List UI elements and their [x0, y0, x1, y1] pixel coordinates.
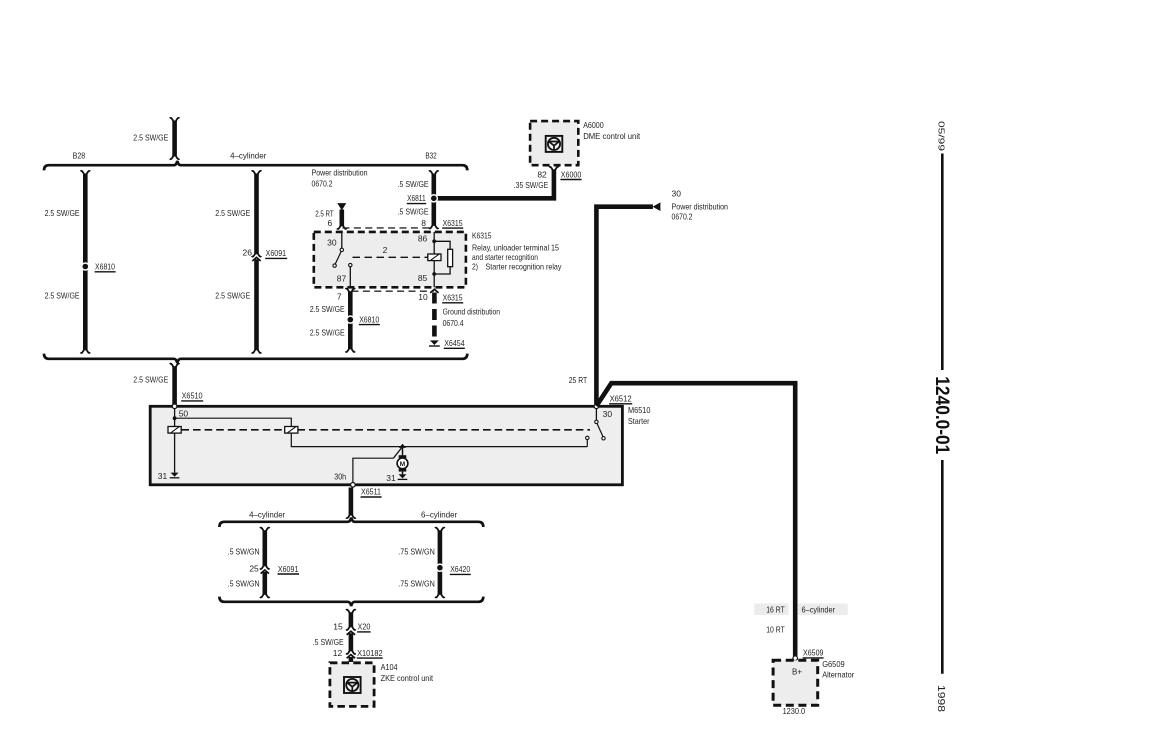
relay actuation dashed link, circuit 2 — [353, 256, 428, 258]
relay pin 30 wire + contact — [340, 232, 343, 252]
svg-text:Relay, unloader terminal 15: Relay, unloader terminal 15 — [472, 242, 559, 252]
svg-text:2.5 SW/GE: 2.5 SW/GE — [215, 208, 250, 218]
svg-text:1230.0: 1230.0 — [783, 706, 806, 716]
svg-text:X6511: X6511 — [361, 487, 381, 497]
connector X6315 pin 10 label — [442, 293, 463, 303]
connector X6000 pin 82 — [537, 169, 581, 179]
svg-text:25 RT: 25 RT — [569, 375, 588, 385]
control unit icon (DME) — [546, 136, 563, 152]
alternator entry circle — [793, 656, 798, 661]
svg-text:31: 31 — [386, 473, 396, 483]
svg-text:2: 2 — [383, 245, 388, 255]
wire 2.5 SW/GE to starter X6510 — [170, 364, 180, 405]
svg-text:X10182: X10182 — [357, 648, 383, 658]
svg-text:2.5 SW/GE: 2.5 SW/GE — [133, 132, 168, 142]
model year 1998 (rotated) — [935, 685, 946, 713]
relay contact 87 — [349, 263, 352, 287]
label 2.5 SW/GE (4-cyl branch lower) — [215, 291, 250, 301]
svg-text:82: 82 — [537, 170, 547, 180]
label X6811 — [407, 193, 426, 203]
svg-text:30: 30 — [672, 189, 682, 199]
svg-text:X6454: X6454 — [444, 338, 465, 348]
label 2.5 RT — [315, 209, 334, 219]
label A104 ZKE control unit — [381, 662, 434, 683]
terminal B+ label — [792, 666, 802, 676]
svg-text:2): 2) — [472, 262, 478, 272]
svg-text:X6810: X6810 — [95, 262, 115, 272]
label Ground distribution 0670.4 — [443, 307, 501, 328]
connector X6512 label — [609, 394, 632, 404]
highlight 16 RT — [754, 603, 788, 615]
page date 05/99 (rotated) — [937, 121, 947, 152]
pin 6 label — [327, 218, 332, 228]
svg-text:X6091: X6091 — [278, 564, 299, 574]
ground X6454 — [429, 338, 465, 348]
svg-text:X20: X20 — [358, 622, 371, 632]
connector X6091 pin 26 — [243, 247, 288, 261]
wire to X20 pin 15 — [346, 610, 356, 630]
highlight 6-cylinder (alternator wire) — [798, 603, 848, 615]
X6512 entry circle — [594, 404, 599, 409]
connector X6810 (dot on pin7 wire) — [346, 314, 380, 324]
wire coil1 to ground 31 — [174, 433, 176, 473]
label DME control unit — [583, 131, 641, 141]
svg-text:Power distribution: Power distribution — [312, 168, 368, 178]
label 2 (relay link) — [383, 245, 388, 255]
label 30 Power distribution 0670.2 (right) — [672, 189, 729, 222]
node label B28 — [73, 150, 86, 160]
svg-text:ZKE control unit: ZKE control unit — [381, 673, 434, 683]
pin 7 label — [337, 292, 342, 302]
svg-text:X6091: X6091 — [266, 248, 287, 258]
pin 30h label — [334, 472, 346, 482]
connector X20 pin 15 — [333, 622, 371, 635]
connector X6315 housing link pins 6-8 (thin dashed) — [343, 227, 434, 229]
svg-text:2.5 SW/GE: 2.5 SW/GE — [310, 328, 345, 338]
relay coil wire 86-85 — [433, 232, 435, 287]
connector X6315 pin 8 (relay K6315 top) — [421, 218, 463, 228]
svg-text:31: 31 — [158, 471, 168, 481]
pin 31 label (motor) — [386, 473, 396, 483]
svg-text:Starter recognition relay: Starter recognition relay — [486, 262, 563, 272]
wire .5 SW/GN upper (4-cyl) — [260, 528, 270, 569]
svg-text:and starter recognition: and starter recognition — [472, 252, 538, 262]
svg-text:30h: 30h — [334, 472, 346, 482]
svg-text:B+: B+ — [792, 666, 802, 676]
label 6-cylinder (bottom group) — [421, 509, 457, 519]
svg-text:X6315: X6315 — [443, 293, 463, 303]
starter pin50 internal wire + junction — [173, 409, 292, 427]
svg-text:X6420: X6420 — [450, 564, 470, 574]
svg-text:26: 26 — [243, 247, 253, 257]
svg-text:X6509: X6509 — [803, 648, 824, 658]
svg-text:.35 SW/GE: .35 SW/GE — [514, 180, 549, 190]
label .5 SW/GE (B32 upper) — [398, 179, 429, 189]
pin 30 label (relay) — [327, 238, 337, 248]
relay coil (slashed box) — [428, 254, 441, 261]
bus brace 4/6-cylinder (bottom) — [219, 597, 483, 606]
alternator G6509 box — [773, 660, 818, 705]
wire 30 from power distribution (right) — [596, 207, 653, 405]
starter M6510 box — [150, 406, 622, 485]
svg-text:6–cylinder: 6–cylinder — [421, 509, 457, 519]
label 2.5 SW/GE (X6510 wire) — [133, 375, 168, 385]
svg-text:7: 7 — [337, 292, 342, 302]
svg-text:.5 SW/GE: .5 SW/GE — [398, 207, 429, 217]
starter solenoid coil 2 — [285, 427, 298, 434]
X6511 exit circle — [351, 483, 356, 488]
wire 2.5 SW/GE from relay pin 87 / pin 7 — [346, 289, 356, 352]
svg-text:10 RT: 10 RT — [766, 624, 785, 634]
svg-text:Starter: Starter — [628, 416, 650, 426]
pin 85 label — [418, 273, 428, 283]
pin 10 label — [418, 292, 428, 302]
wire .5 SW/GN lower (4-cyl) — [260, 572, 270, 598]
svg-text:86: 86 — [418, 234, 428, 244]
label 2.5 SW/GE (pin7 lower) — [310, 328, 345, 338]
label 2.5 SW/GE (pin7 upper) — [310, 304, 345, 314]
svg-text:0670.2: 0670.2 — [312, 178, 333, 188]
svg-text:Ground distribution: Ground distribution — [443, 307, 501, 317]
starter solenoid coil 1 — [168, 427, 181, 434]
label Power distribution 0670.2 (top) — [312, 168, 368, 189]
svg-text:1998: 1998 — [935, 685, 946, 713]
pin 50 label — [179, 409, 189, 419]
starter main contact 30 — [586, 409, 606, 447]
svg-text:M: M — [400, 461, 405, 468]
wire coil2 down to contact rail — [291, 433, 587, 447]
bus brace 4-cylinder / 6-cylinder (top) — [219, 518, 483, 527]
wire .35 SW/GE from X6811 to DME X6000 — [434, 167, 559, 199]
svg-text:.75 SW/GN: .75 SW/GN — [398, 547, 435, 557]
wire starter 30h to X6511 connector — [346, 488, 356, 519]
label .5 SW/GE (B32 lower) — [398, 207, 429, 217]
label .5 SW/GN (lower) — [228, 579, 260, 589]
sheet number 1240.0-01 (rotated) — [931, 376, 952, 454]
label 4-cylinder (top bus) — [230, 150, 266, 160]
svg-text:G6509: G6509 — [822, 659, 845, 669]
wire 2.5 RT into relay pin 6 — [337, 210, 347, 229]
label 2.5 SW/GE (B28 branch lower) — [45, 291, 80, 301]
pin 86 label — [418, 234, 428, 244]
label 10 RT — [766, 624, 785, 634]
pin 31 label (left) — [158, 471, 168, 481]
pin 87 label (relay) — [337, 274, 347, 284]
svg-text:0670.4: 0670.4 — [443, 318, 464, 328]
svg-text:.5 SW/GE: .5 SW/GE — [398, 179, 429, 189]
wire 16/10 RT to alternator B+ — [596, 383, 795, 656]
connector X10182 pin 12 — [333, 648, 383, 658]
relay switch blade 30-87 — [333, 251, 341, 267]
svg-text:30: 30 — [603, 409, 613, 419]
label .75 SW/GN (lower) — [398, 579, 435, 589]
junction X6811 (dot with halo) — [430, 194, 439, 203]
margin rule (upper) — [941, 154, 944, 371]
svg-text:25: 25 — [249, 563, 259, 573]
wire 2.5 SW/GE feed from fuse into bus B28/B32 — [170, 118, 180, 159]
svg-text:A104: A104 — [381, 662, 398, 672]
svg-text:K6315: K6315 — [472, 231, 492, 241]
svg-text:DME control unit: DME control unit — [583, 131, 641, 141]
svg-text:87: 87 — [337, 274, 347, 284]
svg-text:.5 SW/GN: .5 SW/GN — [228, 547, 260, 557]
svg-text:.5 SW/GN: .5 SW/GN — [228, 579, 260, 589]
svg-text:X6000: X6000 — [561, 169, 582, 179]
svg-text:X6811: X6811 — [407, 193, 426, 203]
switch blade 30h — [393, 447, 402, 459]
svg-text:4–cylinder: 4–cylinder — [230, 150, 266, 160]
svg-text:0670.2: 0670.2 — [672, 212, 693, 222]
svg-text:30: 30 — [327, 238, 337, 248]
svg-text:6: 6 — [327, 218, 332, 228]
X6510 entry circle (pin 50) — [172, 404, 177, 409]
svg-text:1240.0-01: 1240.0-01 — [931, 376, 952, 454]
relay K6315 dashed box — [314, 232, 466, 287]
ZKE control unit A104 box — [330, 663, 374, 707]
DME control unit A6000 (dashed box) — [530, 121, 578, 165]
svg-text:X6512: X6512 — [610, 394, 632, 404]
svg-text:16 RT: 16 RT — [766, 604, 785, 614]
svg-text:85: 85 — [418, 273, 428, 283]
resistor parallel to relay coil — [434, 241, 452, 274]
arrow to power distribution 0670.2 — [653, 202, 661, 211]
svg-text:A6000: A6000 — [583, 120, 604, 130]
svg-text:2.5 SW/GE: 2.5 SW/GE — [310, 304, 345, 314]
label 4-cylinder (bottom group) — [249, 509, 285, 519]
label 2.5 SW/GE (B28 branch upper) — [45, 208, 80, 218]
relay K6315 description text — [472, 231, 562, 272]
svg-text:2.5 SW/GE: 2.5 SW/GE — [45, 291, 80, 301]
ground 31 (left, starter) — [170, 473, 180, 478]
svg-text:2.5 SW/GE: 2.5 SW/GE — [215, 291, 250, 301]
svg-text:05/99: 05/99 — [937, 121, 947, 152]
svg-text:X6510: X6510 — [182, 391, 203, 401]
svg-text:X6315: X6315 — [443, 218, 463, 228]
svg-text:50: 50 — [179, 409, 189, 419]
label A6000 — [583, 120, 604, 130]
svg-text:15: 15 — [333, 622, 343, 632]
label G6509 Alternator — [822, 659, 854, 679]
connector X6510 label — [181, 391, 203, 401]
wire 4-cylinder branch 2.5 SW/GE lower — [252, 259, 262, 353]
svg-text:10: 10 — [418, 292, 428, 302]
connector X6315 housing link pins 7-10 (thin dashed) — [352, 290, 434, 292]
svg-text:B32: B32 — [425, 150, 437, 160]
svg-text:2.5 SW/GE: 2.5 SW/GE — [45, 208, 80, 218]
wire .5 SW/GE to X10182 — [346, 633, 356, 654]
svg-text:2.5 SW/GE: 2.5 SW/GE — [133, 375, 168, 385]
svg-text:Alternator: Alternator — [822, 670, 854, 680]
svg-text:.5 SW/GE: .5 SW/GE — [313, 637, 344, 647]
svg-text:M6510: M6510 — [628, 405, 651, 415]
label 2.5 SW/GE (top feed wire) — [133, 132, 168, 142]
label M6510 Starter — [628, 405, 651, 426]
svg-text:8: 8 — [421, 218, 426, 228]
wire stub into ZKE — [349, 657, 354, 662]
margin rule (lower) — [941, 460, 944, 674]
junction dots on coil wire — [432, 239, 436, 275]
svg-text:12: 12 — [333, 648, 343, 658]
starter actuation dashed line — [181, 429, 590, 431]
node label B32 — [425, 150, 437, 160]
wire .75 SW/GN (6-cyl) — [435, 528, 445, 598]
wire 4-cylinder branch 2.5 SW/GE upper — [252, 171, 262, 257]
power feed arrow (from power distribution 0670.2) — [337, 203, 346, 210]
label 2.5 SW/GE (4-cyl branch upper) — [215, 208, 250, 218]
control unit icon (ZKE) — [344, 677, 361, 693]
junction arrow to motor — [399, 444, 406, 448]
connector X6420 (dot) — [436, 563, 471, 574]
bus brace (bottom of B28/B32 group) — [44, 354, 467, 363]
label 1230.0 — [783, 706, 806, 716]
connector X6810 (splice dot on B28 branch) — [81, 262, 116, 272]
svg-text:.75 SW/GN: .75 SW/GN — [398, 579, 435, 589]
connector X6509 label — [803, 648, 824, 658]
label .75 SW/GN (upper) — [398, 547, 435, 557]
connector X6091 pin 25 — [249, 563, 299, 574]
svg-text:Power distribution: Power distribution — [672, 202, 729, 212]
connector X6511 label — [361, 487, 382, 497]
ghost wire from relay pin 85 / pin 10 to ground distribution — [430, 289, 438, 338]
starter motor M — [397, 448, 408, 475]
svg-text:X6810: X6810 — [359, 314, 379, 324]
label 25 RT — [569, 375, 588, 385]
svg-text:B28: B28 — [73, 150, 86, 160]
label .35 SW/GE — [514, 180, 549, 190]
pin 30 label (starter) — [603, 409, 613, 419]
wire 30h to X6511 — [353, 458, 394, 483]
label .5 SW/GE (ZKE wire) — [313, 637, 344, 647]
wire B28 branch 2.5 SW/GE — [81, 171, 91, 353]
label .5 SW/GN (upper) — [228, 547, 260, 557]
bus brace node B28 / 4-cylinder / B32 (top) — [44, 161, 467, 170]
svg-text:4–cylinder: 4–cylinder — [249, 509, 285, 519]
wire B32 branch .5 SW/GE — [429, 171, 439, 229]
svg-text:6–cylinder: 6–cylinder — [802, 604, 836, 614]
ground 31 (motor) — [398, 474, 408, 479]
